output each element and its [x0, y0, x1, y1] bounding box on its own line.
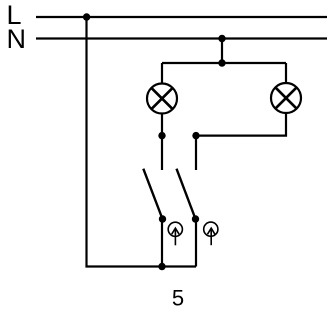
svg-text:5: 5	[172, 285, 184, 310]
svg-text:N: N	[7, 24, 27, 54]
